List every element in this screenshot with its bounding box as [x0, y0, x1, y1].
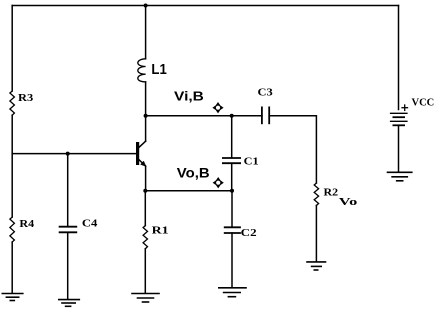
wire C1 lower lead — [231, 163, 233, 191]
wire C4 branch upper — [67, 154, 69, 227]
inductor L1 — [138, 59, 146, 82]
wire Vi,B line — [146, 115, 262, 117]
resistor R3 — [10, 91, 15, 115]
resistor R4 — [10, 217, 15, 242]
svg-text:L1: L1 — [151, 61, 166, 78]
wire C4 branch lower — [67, 232, 69, 298]
wire R1 lower lead — [144, 249, 146, 293]
ground C4 — [59, 299, 80, 301]
wire top rail — [12, 5, 398, 7]
svg-text:R1: R1 — [152, 226, 169, 237]
wire C1 upper lead — [231, 116, 233, 158]
battery VCC — [391, 112, 407, 114]
wire L1 bottom lead — [145, 82, 147, 116]
node marker star Vo,B — [213, 177, 224, 188]
resistor R1 — [143, 226, 147, 249]
ground VCC — [388, 171, 412, 173]
node marker star Vi,B — [212, 102, 223, 113]
svg-text:R4: R4 — [19, 219, 35, 230]
svg-text:VCC: VCC — [412, 98, 435, 109]
svg-text:R3: R3 — [18, 93, 33, 104]
node junction base line / C4 — [66, 152, 70, 156]
node junction Vi,B / C1 / C3 — [230, 114, 234, 118]
ground R2 — [307, 261, 326, 263]
wire emitter — [145, 166, 147, 191]
capacitor C1 — [223, 157, 240, 159]
ground R1 — [132, 293, 159, 295]
wire C2 upper lead — [231, 191, 233, 227]
capacitor C4 — [60, 226, 77, 228]
node junction emitter / Vo,B / R1 — [143, 189, 147, 193]
wire R1 upper lead — [144, 191, 146, 226]
transistor Q1 — [136, 144, 139, 164]
wire left rail middle — [11, 115, 13, 217]
wire R2 lower lead — [315, 205, 317, 261]
svg-text:Vi,B: Vi,B — [174, 89, 204, 103]
svg-text:R2: R2 — [324, 188, 339, 199]
wire left rail upper — [11, 6, 13, 92]
wire C3 to R2 — [269, 116, 316, 183]
svg-text:C3: C3 — [258, 87, 273, 98]
node junction top rail / L1 — [144, 4, 148, 8]
wire Vo,B line — [145, 190, 232, 192]
svg-text:C4: C4 — [82, 219, 98, 230]
resistor R2 — [314, 183, 318, 205]
svg-text:C1: C1 — [244, 156, 259, 167]
capacitor C3 — [261, 107, 263, 123]
ground left rail — [2, 293, 23, 295]
svg-text:Vo,B: Vo,B — [177, 165, 210, 180]
ground C2 — [219, 287, 246, 289]
capacitor C2 — [225, 226, 240, 228]
node junction Vo,B / C2 — [230, 189, 234, 193]
wire battery to ground — [398, 125, 400, 171]
wire L1 top lead — [145, 6, 147, 59]
wire base line — [12, 153, 136, 155]
svg-text:Vo: Vo — [339, 197, 358, 208]
svg-text:C2: C2 — [241, 228, 257, 239]
wire left rail lower — [11, 242, 13, 293]
node junction collector / Vi,B — [144, 114, 148, 118]
wire C2 lower lead — [231, 233, 233, 287]
wire collector — [145, 116, 147, 142]
wire VCC rail — [398, 6, 400, 110]
